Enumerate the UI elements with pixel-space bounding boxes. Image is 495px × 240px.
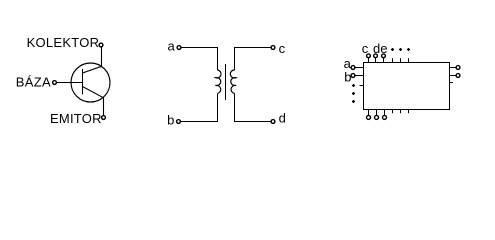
svg-text:d: d [279,111,286,126]
svg-text:c: c [279,41,286,56]
svg-text:e: e [380,41,387,56]
svg-text:d: d [373,41,380,56]
svg-text:c: c [362,41,369,56]
svg-text:KOLEKTOR: KOLEKTOR [27,35,100,50]
svg-text:b: b [167,113,174,128]
svg-text:b: b [344,70,351,85]
svg-text:BÁZA: BÁZA [16,75,51,90]
svg-text:a: a [168,39,176,54]
svg-text:EMITOR: EMITOR [50,111,102,126]
